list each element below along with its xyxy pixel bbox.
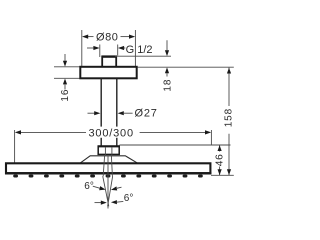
head bottom edge (thick) [5, 172, 211, 174]
svg-text:6°: 6° [124, 193, 134, 204]
shower head body [6, 163, 210, 173]
dim 158 bottom arrowhead [227, 169, 231, 175]
angle 6° upper left arrowhead [99, 186, 105, 190]
dim Ø80 right arrowhead [129, 35, 135, 39]
svg-text:16: 16 [60, 89, 71, 102]
svg-text:46: 46 [214, 154, 225, 167]
svg-text:G 1/2: G 1/2 [126, 44, 153, 56]
svg-text:Ø27: Ø27 [135, 108, 158, 120]
dim Ø27 right arrow tail [123, 112, 132, 114]
svg-text:158: 158 [223, 108, 234, 127]
dim 16 bottom arrowhead [63, 79, 67, 85]
dim G1/2 left arrow tail [87, 47, 94, 49]
dim Ø27 right arrowhead [118, 111, 124, 115]
supply pipe left wall [100, 78, 102, 126]
neck top extension line (for dim 18) [115, 55, 171, 57]
spray axis line center [107, 156, 109, 209]
dim Ø27 left arrow tail [88, 112, 96, 114]
lower right arrow tail [117, 200, 124, 203]
dim Ø80 right extension line [134, 30, 136, 67]
lower left arrow tail [95, 202, 102, 204]
dim 46 bottom arrowhead [218, 169, 222, 175]
dim Ø80 left extension line [81, 30, 83, 67]
svg-text:18: 18 [163, 79, 174, 92]
nut inner facet line right [111, 148, 113, 156]
lower right arrowhead [111, 200, 117, 204]
svg-text:6°: 6° [84, 181, 94, 192]
thread neck top edge (thick) [102, 55, 118, 57]
dim Ø80 left arrowhead [82, 35, 88, 39]
dim 300/300 dimension line [20, 131, 87, 133]
svg-text:Ø80: Ø80 [96, 32, 118, 44]
angle 6° upper right arrowhead [111, 186, 117, 190]
dim G1/2 right arrowhead [118, 46, 124, 50]
dim 16 bottom arrow stem [64, 84, 66, 90]
head top cover mesa [80, 156, 138, 163]
ceiling line (right of flange) [137, 66, 233, 68]
dim 18 top arrow stem [166, 40, 168, 50]
angle 6° upper leader tail [93, 186, 101, 188]
nut inner facet line left [104, 148, 106, 156]
nozzles row [13, 175, 203, 178]
dim 16 top extension line [54, 66, 80, 68]
dim 300/300 left extension line [14, 130, 16, 163]
dim G1/2 right extension line [117, 45, 119, 56]
thread neck [102, 57, 116, 68]
bottom extension line (head underside, for dims 46 and 158) [211, 174, 234, 176]
dim G1/2 right arrow tail [124, 47, 126, 49]
dim 16 top arrowhead [63, 61, 67, 67]
ceiling plate flange [80, 67, 136, 79]
dim 16 top arrow stem [64, 54, 66, 62]
dim 18 top arrowhead [165, 50, 169, 56]
dim Ø27 left arrowhead [94, 111, 100, 115]
connection nut [98, 146, 119, 154]
dim 300/300 left arrowhead [15, 130, 21, 134]
svg-text:300/300: 300/300 [89, 128, 134, 140]
spray axis line left (tilted 6°) [103, 156, 109, 207]
dim 46 dimension line lower segment [219, 167, 221, 176]
angle 6° upper right arrow tail [116, 187, 122, 188]
nut top edge (thick) [98, 145, 120, 147]
dim 46 top extension line (from nut top) [120, 144, 231, 146]
dim 16 bottom extension line [54, 77, 80, 79]
dim 158 top arrowhead [227, 68, 231, 74]
dim 46 dimension line upper segment [219, 145, 221, 151]
lower left arrowhead [101, 201, 107, 205]
dim 300/300 right arrowhead [205, 130, 211, 134]
dim G1/2 left extension line [99, 45, 101, 58]
dim 158 dimension line lower segment [228, 134, 230, 175]
dim 18 bottom arrowhead [165, 67, 169, 73]
dim G1/2 left arrowhead [93, 46, 99, 50]
dim 46 top arrowhead [218, 145, 222, 151]
dim 300/300 right extension line [210, 130, 212, 145]
supply pipe right wall [116, 78, 118, 126]
dim 158 dimension line upper segment [228, 68, 230, 106]
dim 18 bottom arrow stem [166, 73, 168, 77]
spray axis line right (tilted 6°) [108, 156, 113, 207]
dim Ø80 dimension line [87, 36, 94, 38]
